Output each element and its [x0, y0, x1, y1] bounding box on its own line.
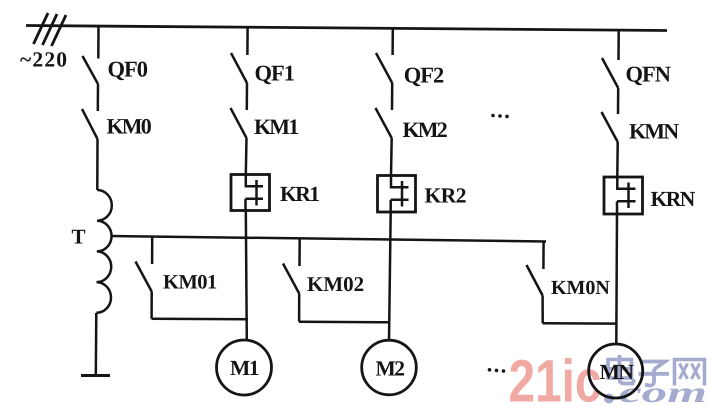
svg-text:QF2: QF2	[404, 63, 444, 88]
svg-text:QFN: QFN	[626, 62, 671, 87]
svg-text:KR1: KR1	[280, 182, 319, 206]
svg-text:T: T	[72, 225, 86, 249]
svg-text:QF1: QF1	[255, 61, 295, 86]
svg-text:KM01: KM01	[163, 272, 217, 294]
svg-text:KM0N: KM0N	[551, 277, 610, 299]
svg-text:KMN: KMN	[629, 119, 679, 144]
svg-text:KM0: KM0	[107, 114, 152, 139]
svg-text:KM02: KM02	[307, 272, 364, 296]
svg-text:KM2: KM2	[403, 117, 448, 142]
svg-text:M2: M2	[375, 357, 404, 381]
svg-text:~220: ~220	[20, 48, 68, 72]
svg-text:KRN: KRN	[651, 187, 696, 211]
svg-text:KR2: KR2	[425, 183, 467, 207]
svg-text:MN: MN	[600, 360, 635, 384]
svg-text:21ic: 21ic	[509, 348, 602, 406]
svg-text:QF0: QF0	[108, 57, 148, 82]
svg-text:KM1: KM1	[254, 114, 298, 139]
svg-text:M1: M1	[230, 356, 259, 380]
